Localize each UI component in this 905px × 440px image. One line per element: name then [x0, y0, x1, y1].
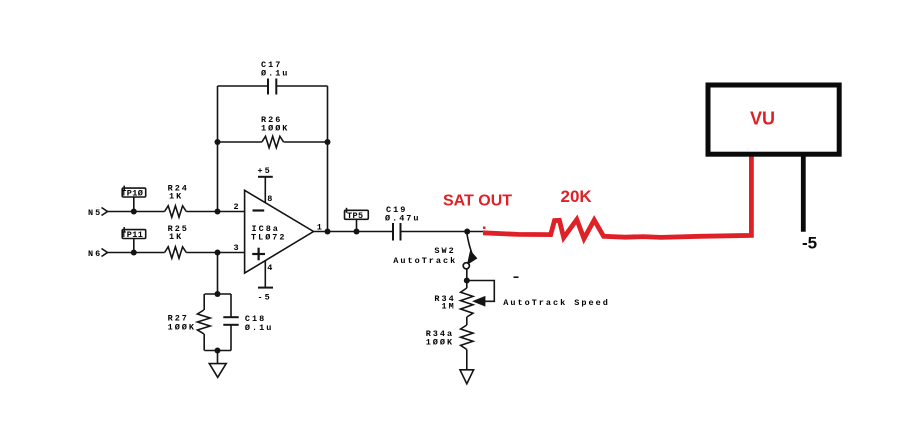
svg-text:1: 1 — [317, 223, 323, 233]
svg-text:1K: 1K — [169, 191, 183, 201]
svg-text:N5: N5 — [88, 208, 102, 218]
svg-text:SW2: SW2 — [434, 246, 455, 256]
svg-text:TLØ72: TLØ72 — [251, 233, 287, 243]
svg-text:TP1Ø: TP1Ø — [121, 189, 143, 199]
svg-text:-5: -5 — [258, 293, 272, 303]
svg-text:AutoTrack Speed: AutoTrack Speed — [503, 298, 610, 308]
svg-text:1ØØK: 1ØØK — [426, 338, 454, 348]
svg-text:TP5: TP5 — [347, 211, 364, 221]
svg-text:3: 3 — [234, 243, 240, 253]
svg-text:Ø.1u: Ø.1u — [245, 323, 273, 333]
svg-text:1M: 1M — [442, 302, 456, 312]
svg-text:2: 2 — [234, 202, 240, 212]
svg-text:1K: 1K — [169, 232, 183, 242]
svg-text:20K: 20K — [561, 187, 593, 206]
svg-text:4: 4 — [267, 263, 273, 273]
svg-text:Ø.47u: Ø.47u — [385, 214, 421, 224]
svg-text:SAT OUT: SAT OUT — [443, 192, 512, 209]
svg-text:-5: -5 — [802, 233, 817, 252]
svg-text:Ø.1u: Ø.1u — [261, 69, 289, 79]
svg-text:+5: +5 — [258, 166, 272, 176]
svg-text:TP11: TP11 — [121, 230, 143, 240]
svg-text:N6: N6 — [88, 249, 102, 259]
svg-text:1ØØK: 1ØØK — [261, 124, 289, 134]
svg-text:1ØØK: 1ØØK — [168, 323, 196, 333]
svg-text:AutoTrack: AutoTrack — [393, 256, 457, 266]
svg-text:8: 8 — [267, 194, 273, 204]
svg-text:VU: VU — [750, 108, 775, 128]
